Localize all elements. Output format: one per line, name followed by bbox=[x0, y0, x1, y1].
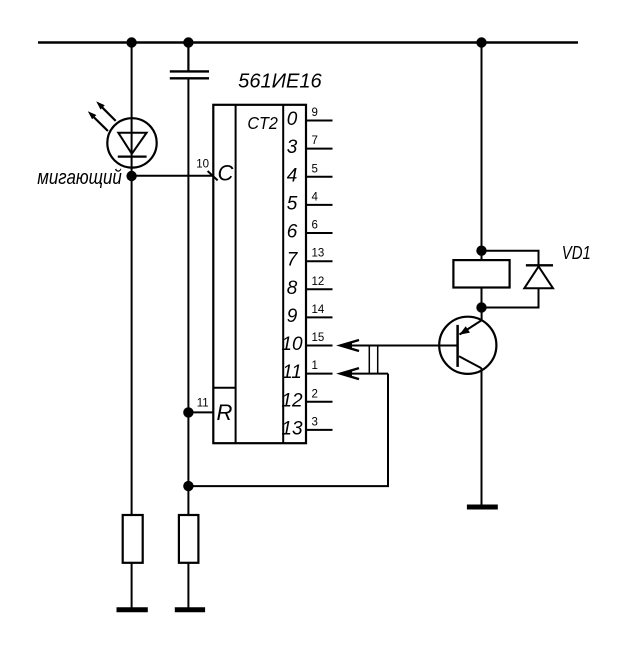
node junction on rail at relay branch bbox=[476, 37, 486, 47]
ground under R2 bbox=[175, 607, 205, 612]
node junction on rail at LED branch bbox=[126, 37, 136, 47]
arrow into pin 1 bbox=[340, 368, 359, 379]
diode VD1 bbox=[524, 265, 553, 288]
node junction feedback bbox=[183, 481, 193, 491]
svg-text:10: 10 bbox=[281, 334, 303, 355]
capacitor C1 plates bbox=[170, 71, 209, 78]
output stage 4 pin 5 bbox=[287, 163, 333, 186]
node junction below relay bbox=[476, 302, 486, 312]
wire pin1 arrow to feedback corner bbox=[340, 373, 388, 375]
output stage 13 pin 3 bbox=[281, 416, 332, 439]
svg-text:мигающий: мигающий bbox=[37, 167, 122, 189]
svg-text:13: 13 bbox=[312, 248, 325, 260]
output stage 9 pin 14 bbox=[287, 304, 333, 327]
pin C dynamic input slash bbox=[208, 171, 218, 180]
relay coil K1 bbox=[453, 260, 509, 287]
svg-text:14: 14 bbox=[312, 304, 325, 316]
svg-text:2: 2 bbox=[312, 388, 318, 400]
label R input bbox=[217, 400, 233, 425]
svg-text:11: 11 bbox=[197, 398, 209, 410]
svg-text:9: 9 bbox=[312, 107, 318, 119]
resistor R2 (capacitor branch) bbox=[179, 515, 199, 563]
svg-text:C: C bbox=[218, 161, 234, 186]
svg-text:4: 4 bbox=[287, 165, 298, 186]
wire rail to relay bbox=[481, 43, 483, 261]
svg-text:3: 3 bbox=[312, 416, 318, 428]
wire top power rail bbox=[38, 41, 578, 43]
label VD1 bbox=[562, 242, 591, 263]
wire LED branch vertical (rail to resistor) bbox=[131, 43, 133, 517]
svg-text:6: 6 bbox=[312, 220, 318, 232]
resistor R1 (LED branch) bbox=[123, 515, 143, 563]
output stage 10 pin 15 bbox=[281, 332, 332, 355]
label C input bbox=[218, 161, 234, 186]
label 561ИЕ16 bbox=[238, 71, 322, 93]
svg-text:1: 1 bbox=[312, 360, 318, 372]
svg-text:5: 5 bbox=[312, 163, 318, 175]
pin number 11 (R input) bbox=[197, 398, 209, 410]
wire capacitor branch vertical top bbox=[187, 43, 189, 72]
wire capacitor branch vertical down to resistor bbox=[187, 78, 189, 516]
wire C input (LED node to IC) bbox=[132, 175, 214, 177]
wire pin15 arrow to transistor base bbox=[340, 345, 457, 347]
node junction LED / C input bbox=[126, 171, 136, 181]
node junction on rail at capacitor branch bbox=[183, 37, 193, 47]
wire LED branch resistor to ground bbox=[131, 562, 133, 609]
label CT2 bbox=[247, 113, 278, 133]
svg-text:4: 4 bbox=[312, 191, 319, 203]
svg-text:5: 5 bbox=[287, 193, 298, 214]
svg-text:0: 0 bbox=[287, 109, 298, 130]
svg-text:561ИЕ16: 561ИЕ16 bbox=[238, 71, 322, 93]
svg-text:15: 15 bbox=[312, 332, 325, 344]
ground under R1 bbox=[117, 607, 148, 612]
svg-text:12: 12 bbox=[312, 276, 325, 288]
LED emission arrow lower bbox=[88, 111, 108, 131]
output stage 7 pin 13 bbox=[287, 248, 333, 271]
svg-text:R: R bbox=[217, 400, 233, 425]
svg-text:VD1: VD1 bbox=[562, 242, 591, 263]
wire R input (node to IC) bbox=[188, 411, 213, 413]
svg-text:9: 9 bbox=[287, 306, 298, 327]
svg-text:10: 10 bbox=[196, 159, 209, 171]
transistor VT1 bbox=[439, 308, 496, 374]
wire feedback (node to pin 1 arrow) bbox=[188, 374, 388, 487]
ground under transistor bbox=[467, 505, 498, 510]
svg-text:6: 6 bbox=[287, 222, 298, 243]
svg-text:3: 3 bbox=[287, 137, 298, 158]
output stage 5 pin 4 bbox=[287, 191, 333, 214]
LED blinking indicator circle bbox=[107, 118, 156, 167]
svg-text:CT2: CT2 bbox=[247, 113, 278, 133]
svg-text:7: 7 bbox=[312, 135, 318, 147]
wire capacitor branch resistor to ground bbox=[187, 562, 189, 609]
wire link pair between pin15 and pin1 rows bbox=[369, 346, 377, 374]
svg-text:8: 8 bbox=[287, 278, 298, 299]
output stage 0 pin 9 bbox=[287, 107, 333, 130]
output stage 8 pin 12 bbox=[287, 276, 333, 299]
LED emission arrow upper bbox=[96, 101, 116, 121]
output stage 3 pin 7 bbox=[287, 135, 333, 158]
LED diode triangle bbox=[118, 133, 146, 154]
output stage 6 pin 6 bbox=[287, 220, 333, 243]
svg-text:11: 11 bbox=[282, 362, 302, 383]
LED cathode bar bbox=[118, 156, 147, 158]
wire node to diode top bbox=[482, 251, 539, 266]
wire relay bottom to node bbox=[481, 288, 483, 308]
svg-text:7: 7 bbox=[287, 250, 299, 271]
IC U1 561ИЕ16 counter body bbox=[213, 105, 306, 443]
svg-text:13: 13 bbox=[281, 418, 303, 439]
output stage 11 pin 1 bbox=[282, 360, 332, 383]
node junction above relay bbox=[476, 246, 486, 256]
svg-text:12: 12 bbox=[281, 390, 303, 411]
wire diode bottom to node bbox=[482, 288, 539, 307]
wire emitter to ground bbox=[481, 368, 483, 506]
output stage 12 pin 2 bbox=[281, 388, 332, 411]
node junction R input bbox=[183, 407, 193, 417]
pin number 10 (C input) bbox=[196, 159, 209, 171]
label мигающий bbox=[37, 167, 122, 189]
arrow into pin 15 bbox=[340, 340, 359, 351]
